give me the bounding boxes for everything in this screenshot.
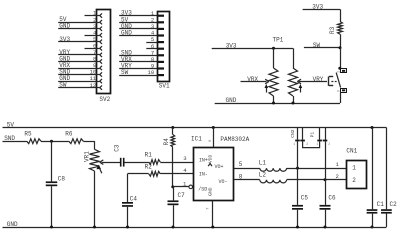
svg-text:P1: P1	[310, 132, 316, 138]
svg-text:VRY: VRY	[313, 76, 324, 83]
svg-text:R2: R2	[145, 163, 153, 170]
svg-text:10: 10	[147, 69, 154, 76]
svg-text:R3: R3	[329, 26, 336, 34]
svg-text:SW: SW	[313, 42, 321, 49]
svg-text:2: 2	[336, 173, 339, 180]
svg-text:3: 3	[337, 90, 341, 92]
svg-text:SV2: SV2	[99, 96, 110, 103]
svg-text:L2: L2	[259, 171, 267, 178]
svg-text:C7: C7	[178, 192, 186, 199]
svg-text:IC1: IC1	[191, 136, 202, 143]
svg-text:L1: L1	[259, 159, 267, 166]
svg-text:1: 1	[316, 142, 318, 146]
svg-text:CN1: CN1	[346, 147, 357, 154]
svg-text:SV1: SV1	[159, 82, 170, 89]
svg-text:2: 2	[338, 71, 342, 73]
svg-text:GND: GND	[7, 221, 18, 228]
svg-text:/SD: /SD	[198, 187, 207, 193]
svg-text:VDD: VDD	[208, 154, 214, 163]
svg-text:VR1: VR1	[84, 151, 91, 162]
svg-text:C3: C3	[113, 144, 120, 152]
svg-text:3V3: 3V3	[59, 36, 70, 43]
svg-text:VO+: VO+	[215, 164, 224, 170]
svg-text:2: 2	[352, 177, 356, 184]
svg-text:PAM8302A: PAM8302A	[220, 136, 249, 143]
svg-text:IN-: IN-	[199, 172, 208, 178]
svg-text:C4: C4	[130, 196, 138, 203]
svg-text:GND: GND	[208, 187, 214, 196]
svg-text:1: 1	[352, 165, 356, 172]
svg-text:R1: R1	[145, 151, 153, 158]
svg-text:TP1: TP1	[273, 36, 284, 43]
svg-text:SND: SND	[4, 135, 15, 142]
svg-text:3V3: 3V3	[226, 43, 237, 50]
svg-text:5: 5	[239, 161, 243, 168]
svg-text:5V: 5V	[7, 121, 15, 128]
svg-text:R6: R6	[65, 131, 73, 138]
svg-text:2: 2	[328, 142, 330, 146]
svg-text:C8: C8	[58, 176, 66, 183]
svg-text:C6: C6	[328, 195, 336, 202]
svg-text:3: 3	[183, 155, 186, 162]
svg-text:VO-: VO-	[219, 179, 228, 185]
svg-text:12: 12	[90, 82, 97, 89]
svg-text:GND: GND	[59, 23, 70, 30]
svg-text:IN+: IN+	[199, 158, 208, 164]
svg-text:GND: GND	[226, 97, 237, 104]
svg-text:CN2: CN2	[290, 129, 296, 138]
svg-text:VRX: VRX	[247, 76, 258, 83]
svg-text:C2: C2	[390, 201, 398, 208]
svg-text:SW: SW	[121, 69, 129, 76]
svg-text:GND: GND	[121, 30, 132, 37]
svg-text:SW: SW	[59, 82, 67, 89]
svg-text:1: 1	[293, 142, 295, 146]
svg-text:R5: R5	[24, 131, 32, 138]
svg-text:R4: R4	[163, 138, 170, 146]
svg-text:2: 2	[306, 142, 308, 146]
svg-text:3V3: 3V3	[312, 4, 323, 11]
svg-text:C1: C1	[377, 201, 385, 208]
svg-text:C5: C5	[301, 195, 309, 202]
svg-text:7: 7	[207, 208, 211, 210]
